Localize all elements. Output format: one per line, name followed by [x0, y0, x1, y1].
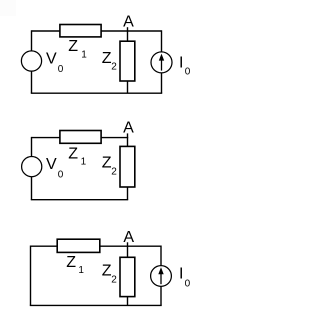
- current source I0 arrow (circuit 3): [158, 267, 163, 284]
- wire right lower (circuit 3): [160, 286, 162, 305]
- wire right upper (circuit 1): [161, 30, 163, 52]
- svg-text:2: 2: [111, 61, 117, 72]
- svg-text:A: A: [123, 14, 134, 31]
- wire top (circuit 1): [32, 30, 162, 32]
- wire right lower (circuit 1): [161, 73, 163, 93]
- wire right upper (circuit 3): [160, 246, 162, 266]
- current source I0 circle (circuit 3): [151, 266, 172, 287]
- svg-text:0: 0: [58, 64, 64, 75]
- svg-text:2: 2: [111, 275, 117, 286]
- current source I0 arrow (circuit 1): [159, 54, 164, 71]
- wire Z2 bottom lead (circuit 2): [127, 187, 129, 200]
- wire bottom (circuit 2): [31, 199, 128, 201]
- wire left lower (circuit 1): [31, 71, 33, 93]
- svg-text:Z: Z: [102, 50, 112, 67]
- svg-text:1: 1: [78, 265, 84, 276]
- node A tick (circuit 1): [127, 27, 129, 41]
- svg-text:I: I: [179, 265, 183, 282]
- voltage source V0 circle (circuit 1): [21, 51, 41, 71]
- wire left upper (circuit 2): [31, 137, 33, 157]
- wire Z2 bottom lead (circuit 1): [127, 81, 129, 93]
- impedance Z1 box (circuit 1): [60, 25, 101, 37]
- faint corner patch: [0, 0, 16, 16]
- wire top (circuit 2): [32, 137, 129, 139]
- svg-text:0: 0: [58, 169, 64, 180]
- svg-text:I: I: [179, 54, 183, 71]
- impedance Z2 box (circuit 2): [120, 146, 135, 187]
- svg-text:Z: Z: [68, 145, 78, 162]
- wire bottom (circuit 1): [31, 92, 162, 94]
- svg-text:Z: Z: [68, 38, 78, 55]
- svg-text:V: V: [46, 156, 57, 173]
- svg-text:1: 1: [81, 49, 87, 60]
- svg-text:A: A: [123, 229, 134, 246]
- impedance Z1 box (circuit 2): [60, 131, 101, 144]
- impedance Z2 box (circuit 1): [120, 41, 135, 81]
- svg-text:Z: Z: [102, 263, 112, 280]
- wire left upper (circuit 1): [31, 30, 33, 51]
- svg-text:A: A: [123, 119, 134, 136]
- svg-text:Z: Z: [102, 155, 112, 172]
- node A tick + Z2 top lead (circuit 2): [127, 133, 129, 146]
- wire top (circuit 3): [31, 245, 162, 247]
- svg-text:0: 0: [185, 278, 191, 289]
- svg-text:0: 0: [185, 67, 191, 78]
- svg-text:2: 2: [111, 167, 117, 178]
- impedance Z2 box (circuit 3): [120, 257, 135, 296]
- svg-text:Z: Z: [66, 254, 76, 271]
- wire bottom (circuit 3): [30, 304, 162, 306]
- svg-text:1: 1: [81, 156, 87, 167]
- svg-text:V: V: [46, 51, 57, 68]
- wire Z2 bottom lead (circuit 3): [127, 297, 129, 306]
- voltage source V0 circle (circuit 2): [22, 157, 42, 177]
- impedance Z1 box (circuit 3): [57, 239, 100, 252]
- wire left (circuit 3): [30, 246, 32, 306]
- node A tick + Z2 top lead (circuit 3): [127, 242, 129, 257]
- current source I0 circle (circuit 1): [151, 52, 172, 73]
- wire left lower (circuit 2): [31, 177, 33, 200]
